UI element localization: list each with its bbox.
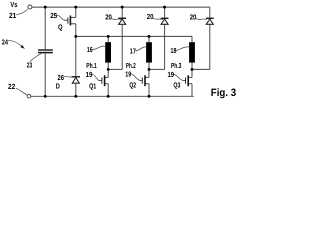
leader label 25	[56, 15, 64, 20]
wire Q1 source	[107, 84, 109, 97]
wire diode 20a down to node	[121, 24, 123, 69]
leader label 19 cell1	[92, 74, 99, 80]
junction dot bottom rail / Q1 source	[107, 95, 110, 98]
wire node to diode column 1	[108, 68, 122, 70]
wire capacitor branch lower	[44, 53, 46, 96]
junction dot bottom rail / Q2 source	[148, 95, 151, 98]
diode D (26)	[72, 77, 80, 83]
junction dot bottom rail / capacitor	[44, 95, 47, 98]
wire diode 20c down to node	[209, 24, 211, 69]
cell 1 : resistor column	[107, 36, 109, 42]
wire top-right corner into diode 20c	[209, 7, 211, 18]
junction dot bottom rail / main branch	[74, 95, 77, 98]
svg-text:Vs: Vs	[10, 0, 17, 9]
transistor Q3 drain	[191, 69, 193, 77]
transistor Q2 drain	[148, 69, 150, 77]
cell 3 : mid rail corner into resistor R18	[191, 36, 193, 42]
leader arrow label 24	[8, 41, 22, 47]
wire diode 20b down to node	[164, 24, 166, 69]
junction dot top rail / main branch	[74, 6, 77, 9]
svg-text:20: 20	[105, 12, 112, 21]
svg-text:Q3: Q3	[173, 81, 180, 90]
leader label 23	[30, 54, 41, 62]
resistor R16	[105, 42, 111, 62]
junction dot mid rail start	[74, 35, 77, 38]
leader label 21	[16, 9, 28, 15]
transistor Q (25)	[64, 16, 76, 26]
svg-text:25: 25	[50, 11, 57, 20]
svg-text:Q: Q	[58, 22, 63, 31]
svg-text:Ph.3: Ph.3	[171, 61, 181, 70]
transistor Q2	[140, 75, 149, 86]
leader label 17	[136, 47, 147, 51]
transistor Q3	[183, 75, 192, 86]
svg-text:19: 19	[168, 70, 175, 79]
wire below R17	[148, 63, 150, 70]
svg-text:17: 17	[130, 47, 136, 56]
resistor R18	[189, 42, 195, 62]
junction dot top rail / diode 20b	[163, 6, 166, 9]
wire Q3 source	[191, 84, 193, 97]
junction dot node 3	[191, 68, 194, 71]
junction dot top rail / diode 20a	[121, 6, 124, 9]
leader label 26	[64, 76, 72, 78]
leader label 19 cell2	[131, 74, 140, 81]
leader label 20b	[153, 18, 163, 20]
wire top rail	[32, 6, 210, 8]
capacitor C23 top plate	[38, 49, 53, 51]
wire Q2 source	[148, 84, 150, 97]
wire main branch source of Q down through mid-rail node	[75, 24, 77, 76]
svg-text:20: 20	[147, 12, 154, 21]
wire main branch below diode D	[75, 83, 77, 96]
svg-text:Fig. 3: Fig. 3	[211, 87, 236, 99]
terminal Vs (21) circle	[28, 5, 32, 9]
svg-text:19: 19	[125, 69, 131, 78]
leader label 16	[92, 46, 105, 49]
arrowhead of label 24	[20, 45, 25, 49]
svg-text:18: 18	[171, 46, 177, 55]
junction dot node 1	[107, 68, 110, 71]
diode 20b column	[164, 7, 166, 18]
diode 20a column	[121, 7, 123, 18]
svg-text:19: 19	[86, 70, 93, 79]
svg-text:Ph.1: Ph.1	[86, 61, 97, 70]
terminal 22 circle	[27, 94, 31, 98]
resistor R17	[146, 42, 152, 62]
leader label 19 cell3	[174, 74, 183, 80]
wire below R16	[107, 63, 109, 70]
capacitor C23 bottom plate	[38, 52, 53, 54]
svg-text:D: D	[56, 82, 60, 91]
wire below R18	[191, 63, 193, 70]
leader label 18	[176, 47, 189, 50]
wire node to diode column 2	[149, 68, 165, 70]
diode 20c	[206, 18, 214, 24]
diode 20a	[118, 18, 126, 24]
svg-text:Q1: Q1	[89, 82, 96, 91]
leader label 20c	[196, 18, 207, 19]
wire main branch drain of Q	[75, 7, 77, 17]
wire node to diode column 3	[192, 68, 210, 70]
junction dot top rail / capacitor	[44, 6, 47, 9]
svg-text:16: 16	[87, 45, 93, 54]
junction dot mid rail / R16	[107, 35, 110, 38]
svg-text:23: 23	[27, 60, 32, 69]
junction dot mid rail / R17	[148, 35, 151, 38]
svg-text:Q2: Q2	[129, 81, 136, 90]
wire mid rail	[76, 35, 192, 37]
leader label 22	[16, 88, 27, 95]
transistor Q1	[99, 75, 109, 86]
svg-text:22: 22	[8, 82, 15, 91]
svg-text:20: 20	[190, 12, 197, 21]
junction dot node 2	[148, 68, 151, 71]
svg-text:24: 24	[2, 37, 9, 46]
transistor Q1 drain	[107, 69, 109, 77]
svg-text:21: 21	[9, 11, 16, 20]
diode 20b	[161, 18, 169, 24]
leader label 20a	[111, 18, 122, 19]
cell 2 : resistor column	[148, 36, 150, 42]
wire bottom rail	[31, 95, 194, 97]
wire capacitor branch upper	[44, 7, 46, 49]
